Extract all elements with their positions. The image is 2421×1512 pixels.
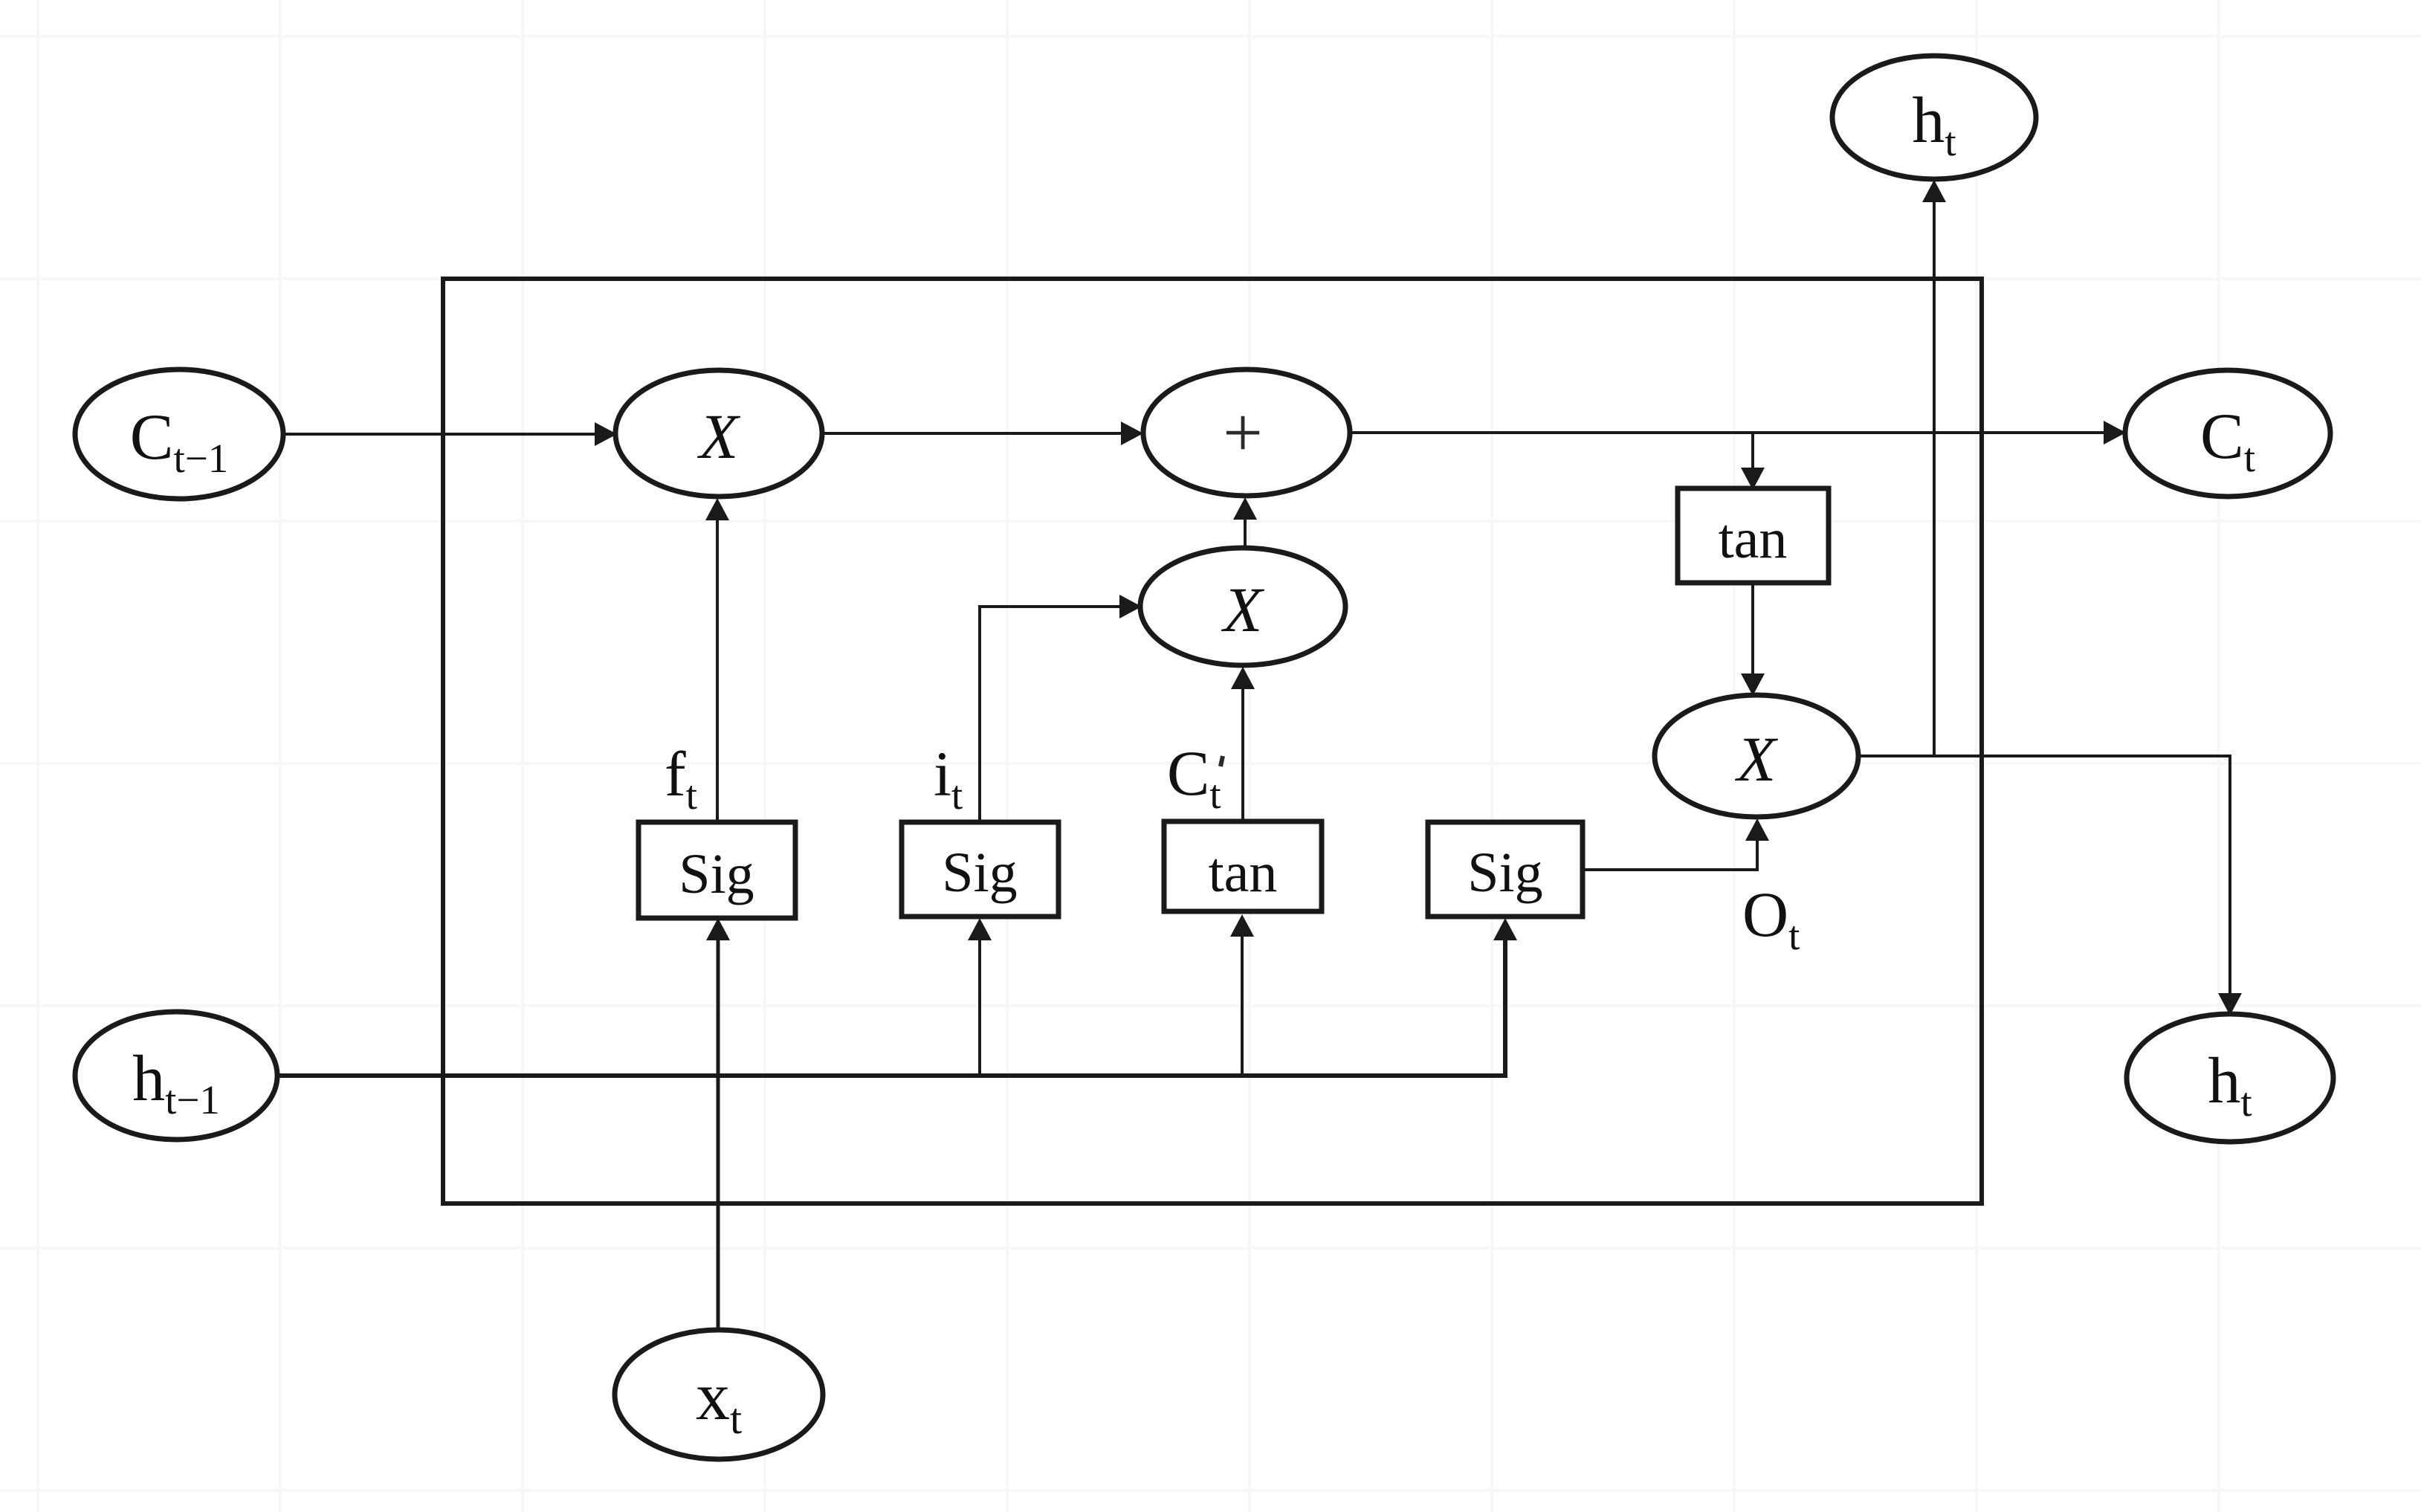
wire tan block (right) to X3 multiply node [1741, 583, 1765, 696]
wire up to h_t (top) [1922, 180, 1946, 756]
node h_{t-1} [75, 1012, 277, 1140]
wire branch up into tan block (left) [1230, 914, 1254, 1076]
block Sig1 forget gate [639, 822, 795, 918]
label i_t [934, 738, 963, 818]
node h_t bottom right [2127, 1014, 2333, 1142]
label f_t [665, 738, 697, 818]
node plus [1143, 369, 1350, 496]
label O_t [1742, 879, 1800, 958]
wire X2 multiply node up into plus node [1233, 497, 1257, 549]
wire X1 to plus node [821, 421, 1143, 445]
svg-text:X: X [1221, 574, 1265, 645]
svg-text:tan: tan [1719, 508, 1788, 570]
block tan left candidate [1164, 821, 1322, 911]
wire h_{t-1} trunk into Sig4 [277, 918, 1517, 1076]
wire C_{t-1} to X1 multiply node [283, 422, 617, 446]
node x_t [615, 1330, 823, 1459]
block Sig4 output gate [1428, 822, 1583, 917]
label C_t' [1167, 737, 1223, 817]
block Sig2 input gate [902, 822, 1058, 917]
block tan right state squash [1678, 488, 1829, 583]
wire C_t' from tan block (left) up into X2 multiply node [1231, 667, 1255, 821]
wire O_t from Sig4 to X3 multiply node [1583, 818, 1769, 870]
svg-text:Sig: Sig [679, 843, 754, 905]
wire plus node to C_t [1349, 421, 2126, 445]
wire branch up into Sig2 [968, 918, 992, 1076]
svg-text:+: + [1223, 393, 1263, 472]
node h_t top [1832, 56, 2036, 179]
svg-text:Sig: Sig [942, 841, 1017, 904]
node C_{t-1} [75, 369, 283, 499]
svg-text:X: X [1735, 723, 1779, 795]
node X2 multiply [1140, 548, 1345, 665]
wire X3 output to h_t (bottom right) [1858, 756, 2242, 1015]
svg-text:Sig: Sig [1467, 841, 1542, 904]
node X3 multiply [1655, 695, 1858, 817]
wire i_t from Sig2 up into X2 multiply node [980, 595, 1142, 822]
LSTM cell boundary rectangle [443, 279, 1982, 1204]
node C_t [2125, 370, 2330, 497]
svg-text:X: X [697, 401, 741, 472]
wire x_t up into Sig1 [706, 918, 730, 1331]
svg-text:tan: tan [1209, 841, 1278, 904]
wire f_t from Sig1 up into X1 multiply node [705, 498, 729, 821]
node X1 multiply [615, 370, 822, 497]
wire branch down into tan block (right) [1741, 433, 1765, 490]
